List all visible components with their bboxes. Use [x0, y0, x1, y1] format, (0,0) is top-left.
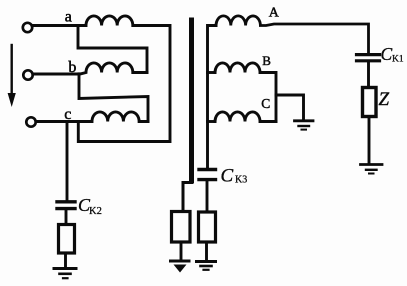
- wire: [64, 253, 67, 267]
- wire + winding c (primary coil c): [36, 112, 148, 122]
- wire: [206, 181, 209, 212]
- svg-text:B: B: [262, 53, 271, 68]
- ground under core arrester: [171, 261, 190, 273]
- svg-text:K1: K1: [392, 55, 404, 65]
- winding C (secondary): [215, 112, 276, 122]
- arrester box under CK3: [199, 212, 216, 242]
- ground under CK3 arrester: [197, 262, 216, 270]
- wire: c-node down to coupling capacitor CK2: [66, 122, 69, 201]
- bus stub to winding C: [208, 120, 216, 123]
- secondary bus (left ends of windings A,B,C): [208, 26, 217, 168]
- transformer core (thick bar): [189, 20, 194, 181]
- capacitor CK1: [357, 55, 380, 61]
- arrester box under core: [172, 212, 191, 243]
- terminal a: [23, 23, 32, 32]
- terminal c: [26, 117, 35, 126]
- svg-text:a: a: [65, 8, 72, 25]
- wire zigzag: b-input down to coil-c output: [79, 74, 148, 122]
- svg-text:Z: Z: [379, 89, 390, 110]
- arrow (phase sequence, pointing down): [8, 45, 16, 107]
- ground under Z: [361, 165, 383, 174]
- wire: [65, 210, 68, 224]
- ground under CK2: [54, 269, 76, 279]
- svg-text:A: A: [269, 5, 280, 20]
- bus stub to winding B: [208, 71, 216, 74]
- impedance Z box: [363, 88, 377, 117]
- wire: [180, 242, 183, 259]
- winding A (secondary) + wire to CK1: [216, 16, 369, 52]
- wire: [367, 62, 370, 88]
- capacitor CK3: [199, 170, 216, 180]
- svg-text:K2: K2: [89, 206, 102, 217]
- wire: [368, 117, 371, 164]
- wire: core to arrester box: [183, 183, 192, 212]
- svg-text:K3: K3: [235, 174, 247, 185]
- wire: B/C junction to ground: [276, 95, 304, 120]
- wire + winding b (primary coil b): [33, 63, 147, 74]
- wire + winding a (primary coil a) + wire to far right down to c-row: [33, 16, 171, 142]
- svg-text:C: C: [381, 44, 393, 64]
- winding B (secondary) + wire down: [215, 63, 276, 122]
- impedance box under CK2: [59, 225, 75, 254]
- ground at B/C neutral: [295, 121, 314, 130]
- wire zigzag: a-input down to coil-b output: [78, 26, 147, 73]
- wire: [205, 242, 208, 260]
- capacitor CK2: [57, 202, 75, 209]
- svg-text:C: C: [221, 165, 234, 186]
- terminal b: [23, 70, 32, 79]
- svg-text:C: C: [261, 96, 270, 111]
